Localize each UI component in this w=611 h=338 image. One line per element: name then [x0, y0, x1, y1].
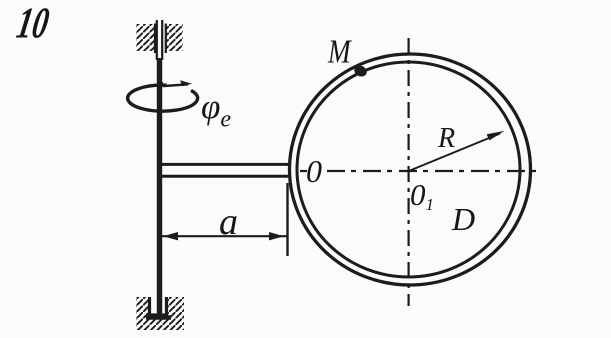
ring inner circle [297, 62, 520, 277]
shaft upper double line left [156, 20, 158, 60]
top bearing right hatch [166, 24, 183, 51]
dimension extension line [286, 183, 288, 256]
rod upper line [161, 163, 291, 166]
ring outer circle [290, 54, 531, 285]
bottom bearing socket [150, 297, 167, 315]
rotation arrow ellipse phi_e [128, 85, 198, 111]
top bearing left wall [154, 24, 156, 54]
dimension line a [158, 235, 288, 237]
rotation arrowhead [180, 80, 192, 86]
svg-text:D: D [451, 201, 475, 237]
bottom bearing socket floor [146, 315, 171, 320]
rod lower line [161, 175, 291, 178]
top bearing left hatch [136, 24, 155, 51]
bottom bearing hatch [136, 297, 184, 330]
horizontal center line short dash before O [300, 170, 307, 172]
vertical center line [408, 38, 410, 306]
rotation arrow top line [162, 82, 188, 87]
dimension left arrowhead [163, 232, 178, 240]
radius R line [410, 134, 500, 171]
svg-text:R: R [437, 123, 455, 154]
svg-text:a: a [219, 201, 238, 243]
shaft upper double line right [161, 20, 163, 60]
dimension right arrowhead [269, 232, 284, 240]
svg-text:0: 0 [306, 153, 322, 189]
point M dot [352, 63, 368, 78]
top bearing right wall [165, 24, 167, 54]
shaft main vertical line [157, 58, 162, 315]
horizontal center line [327, 170, 540, 172]
radius R arrowhead [487, 131, 505, 141]
svg-text:M: M [327, 33, 353, 71]
